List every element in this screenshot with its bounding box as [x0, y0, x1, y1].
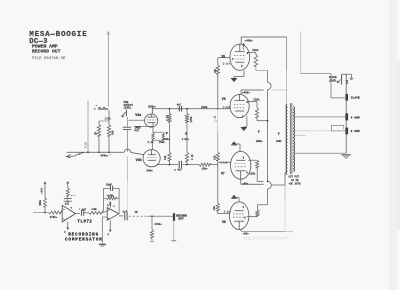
- title POWER AMP: [32, 44, 58, 50]
- V7 grid wire: [218, 161, 231, 163]
- label V8: [222, 220, 226, 224]
- label V7 pin9: [246, 171, 248, 174]
- label V7 pin3: [243, 156, 245, 159]
- V6 screen: [247, 97, 267, 120]
- wire pot line down: [126, 117, 128, 211]
- svg-text:4u7: 4u7: [177, 169, 182, 172]
- wire PI input: [67, 149, 144, 155]
- V7 cathode: [234, 144, 240, 152]
- label V8 pins: [224, 211, 232, 214]
- svg-text:COMPENSATOR: COMPENSATOR: [65, 238, 103, 243]
- V8 cathode: [234, 198, 239, 203]
- label V5 pins: [223, 63, 231, 66]
- wire screen rail: [268, 71, 272, 205]
- svg-text:+): +): [214, 120, 217, 123]
- wire slave feed: [301, 74, 345, 98]
- label 220k top: [201, 105, 208, 109]
- title RECORD OUT: [32, 49, 61, 55]
- ground op2 plus: [99, 217, 107, 246]
- svg-text:16k: 16k: [214, 68, 217, 73]
- pot PRE OUTPUT LEVEL: [122, 101, 134, 117]
- wire tail bottom: [152, 140, 163, 149]
- svg-text:1.8k+: 1.8k+: [182, 138, 190, 141]
- svg-text:4.7k: 4.7k: [85, 141, 88, 148]
- label 470k input: [100, 154, 108, 158]
- svg-text:1·1+3: 1·1+3: [223, 106, 231, 109]
- tube V4b: [143, 150, 160, 167]
- label 150: [110, 154, 112, 157]
- ground V7: [231, 141, 237, 145]
- wire input from preamp: [107, 32, 110, 107]
- svg-text:33pF: 33pF: [106, 184, 113, 187]
- supply -16v op1: [64, 222, 69, 234]
- V4a cathode lead: [134, 123, 153, 127]
- svg-text:V4a: V4a: [135, 114, 141, 118]
- svg-text:220k: 220k: [249, 173, 256, 176]
- label V8 pin9: [244, 217, 246, 220]
- label SLAVE LEVEL: [329, 76, 337, 82]
- V4b out: [157, 164, 163, 166]
- labels string B: [182, 116, 194, 160]
- label pins V6 grid: [223, 106, 231, 109]
- transformer top lead: [286, 103, 288, 105]
- svg-text:+490v: +490v: [245, 39, 253, 42]
- label V5 pin9: [247, 52, 249, 55]
- jack 4 OHM: [345, 113, 359, 120]
- svg-text:+490v: +490v: [242, 92, 250, 95]
- label +490v top: [243, 39, 254, 50]
- svg-text:1/2: 1/2: [107, 204, 112, 207]
- label V4a: [135, 114, 141, 118]
- label V7 pins: [220, 162, 228, 165]
- jack 8 OHM: [345, 128, 359, 135]
- V5 plate lead: [240, 37, 242, 44]
- svg-text:C+7: C+7: [123, 211, 128, 214]
- svg-text:25k: 25k: [346, 79, 349, 84]
- junction rail dots: [169, 108, 188, 166]
- wire plate top rail: [241, 36, 287, 38]
- labels string A: [163, 114, 171, 160]
- svg-text:TL072: TL072: [77, 220, 92, 225]
- V8 grid wire: [218, 213, 230, 215]
- label V6 pin9: [246, 101, 248, 104]
- label V4b: [136, 158, 142, 163]
- svg-text:250k+: 250k+: [148, 104, 156, 108]
- svg-text:100: 100: [164, 155, 167, 160]
- capacitor coupling top: [177, 103, 182, 111]
- V5 screen wire: [248, 52, 256, 54]
- tube V4a: [145, 114, 158, 127]
- pot slave level: [337, 75, 341, 85]
- V7 screen: [248, 160, 263, 181]
- V4a plate lead: [151, 108, 153, 115]
- svg-text:240v: 240v: [146, 170, 153, 173]
- label V5 pin2: [232, 58, 234, 61]
- svg-text:4u7: 4u7: [177, 103, 182, 106]
- svg-text:100k+: 100k+: [256, 140, 264, 143]
- input arrow: [66, 153, 84, 158]
- V5 cathode: [234, 70, 244, 76]
- label +490v V6: [242, 92, 250, 95]
- svg-text:V6: V6: [222, 97, 226, 101]
- svg-text:10k: 10k: [111, 130, 115, 135]
- label V7: [221, 172, 225, 176]
- svg-text:16k: 16k: [214, 155, 217, 160]
- capacitor cathode: [123, 127, 131, 129]
- jack RECORD OUT: [171, 213, 187, 241]
- svg-text:V5: V5: [221, 55, 225, 59]
- svg-text:1·1+3: 1·1+3: [224, 211, 232, 214]
- op1 to op2 network: [76, 208, 108, 216]
- label 240v: [146, 170, 153, 173]
- svg-text:+50+: +50+: [243, 232, 250, 235]
- ground V8: [231, 195, 237, 199]
- label RECORDING: [68, 232, 99, 237]
- labels 16k: [213, 68, 217, 210]
- resistor R2 10k: [107, 110, 114, 152]
- ground V6: [240, 126, 247, 131]
- V6 plate wire: [241, 90, 287, 95]
- tap 4 ohm: [295, 116, 345, 118]
- label 250k rail: [148, 104, 156, 108]
- svg-text:LEVEL: LEVEL: [124, 107, 132, 110]
- transformer primary: [285, 104, 288, 174]
- svg-text:FILE 0037AB.SE: FILE 0037AB.SE: [32, 57, 66, 61]
- svg-text:+16v: +16v: [41, 187, 44, 194]
- svg-text:100k+: 100k+: [163, 138, 171, 141]
- svg-text:1M: 1M: [134, 211, 138, 214]
- tap ground return: [295, 152, 346, 154]
- capacitor 4u7: [174, 161, 182, 172]
- resistor V5 screen: [254, 53, 257, 67]
- input resistor 470k: [33, 211, 62, 219]
- string A 4.7k: [168, 109, 171, 165]
- tube V6: [230, 94, 249, 117]
- svg-text:*.047: *.047: [79, 209, 87, 212]
- label V6 pin3: [242, 115, 244, 118]
- bias 1M +16v: [39, 182, 47, 213]
- node input junction: [94, 104, 109, 109]
- labels transformer wires: [256, 131, 282, 143]
- string B 220k: [185, 109, 188, 165]
- ground speaker: [342, 155, 351, 159]
- svg-text:POT: POT: [135, 129, 140, 132]
- transformer bottom lead: [284, 173, 286, 232]
- label 250k: [105, 117, 112, 121]
- scan streak right: [389, 0, 397, 290]
- label V5: [221, 55, 225, 59]
- wire divider top: [99, 120, 109, 122]
- label V8 pin3: [243, 206, 245, 209]
- transformer core: [290, 103, 292, 174]
- svg-text:10k+: 10k+: [202, 167, 209, 171]
- V8 screen: [247, 205, 268, 217]
- scan streak right2: [397, 60, 400, 230]
- svg-text:V4b: V4b: [136, 158, 142, 163]
- label TL072: [77, 220, 92, 225]
- ground V5: [231, 77, 238, 83]
- svg-text:220k: 220k: [190, 116, 193, 123]
- svg-text:1M: 1M: [95, 131, 98, 135]
- V7 plate: [241, 179, 285, 185]
- wire corner down: [286, 37, 288, 104]
- svg-text:+10k: +10k: [91, 208, 97, 211]
- svg-text:LEVEL: LEVEL: [329, 79, 337, 82]
- screen rail dots: [267, 120, 269, 182]
- svg-text:100k: 100k: [276, 140, 282, 143]
- svg-text:4 OHM: 4 OHM: [351, 117, 360, 120]
- svg-text:250k: 250k: [105, 117, 112, 121]
- svg-text:SLAVE: SLAVE: [351, 96, 360, 99]
- label 25k: [346, 79, 349, 84]
- label V5 pin3: [241, 65, 243, 68]
- label 220k V5: [252, 48, 259, 52]
- svg-text:V8: V8: [222, 220, 226, 224]
- svg-text:470k+: 470k+: [50, 215, 58, 219]
- title MESA-BOOGIE: [29, 31, 87, 39]
- wire slave top: [342, 74, 354, 79]
- supply +16v op2: [109, 202, 111, 208]
- title DC-3: [29, 38, 47, 46]
- resistor 470k shunt: [150, 215, 162, 241]
- note line: [244, 238, 289, 240]
- jack SLAVE: [345, 94, 360, 101]
- svg-text:POWER AMP: POWER AMP: [32, 44, 58, 50]
- tap bracket: [331, 125, 343, 130]
- label pin2 V6: [214, 116, 217, 123]
- wire faint vertical: [300, 32, 302, 74]
- resistor R1 1M: [95, 121, 101, 152]
- svg-text:8 OHM: 8 OHM: [351, 130, 360, 133]
- V6 cathode: [246, 116, 248, 126]
- svg-text:220k: 220k: [201, 105, 208, 109]
- feedback loop: [104, 184, 120, 214]
- supply +16v op1: [64, 182, 76, 206]
- string grid resistors 16k: [216, 58, 219, 214]
- label OUTPUT transformer: [289, 176, 302, 186]
- title FILE: [32, 57, 66, 61]
- resistor tail 2.2k: [148, 126, 155, 144]
- svg-text:100k: 100k: [159, 141, 166, 144]
- svg-text:1·1+3: 1·1+3: [223, 63, 231, 66]
- opamp U1a: [62, 202, 75, 222]
- supply -16v op2: [108, 220, 112, 236]
- svg-text:2.2k: 2.2k: [191, 154, 194, 160]
- svg-text:16k: 16k: [213, 205, 216, 210]
- label COMPENSATOR: [65, 238, 103, 243]
- wire tail top: [153, 131, 163, 133]
- tube V5: [230, 44, 250, 70]
- wire pot to V4a: [129, 119, 145, 121]
- svg-text:470k+: 470k+: [100, 154, 108, 158]
- wire slave main vertical: [345, 74, 347, 153]
- svg-text:+40v: +40v: [242, 182, 249, 185]
- record out wire: [119, 211, 173, 221]
- svg-text:4·7: 4·7: [71, 194, 76, 197]
- resistor tail 100k: [159, 132, 166, 144]
- wire plate rail: [152, 108, 230, 110]
- svg-text:1/2: 1/2: [65, 202, 70, 205]
- svg-text:V7: V7: [221, 172, 225, 176]
- svg-text:+DC 3678: +DC 3678: [289, 183, 302, 186]
- tube V7: [231, 151, 251, 179]
- opamp U1b: [107, 204, 119, 220]
- svg-text:1MEG: 1MEG: [39, 199, 42, 205]
- svg-text:+100k: +100k: [107, 195, 115, 198]
- label +50v: [243, 232, 250, 235]
- tap common short: [295, 134, 306, 136]
- transformer secondary: [293, 107, 296, 172]
- label 1 MEG POT: [135, 126, 142, 132]
- label +40v: [242, 182, 249, 185]
- svg-text:4.7k: 4.7k: [166, 114, 169, 121]
- junctions: [87, 151, 110, 153]
- svg-text:220k: 220k: [252, 48, 259, 52]
- label V6: [222, 97, 226, 101]
- wire left rail 4.7k: [85, 101, 89, 152]
- svg-text:2.2k: 2.2k: [148, 141, 155, 144]
- wire lower run: [163, 164, 218, 166]
- tap 8 ohm: [295, 130, 345, 132]
- V8 plate: [241, 229, 293, 231]
- tube V8: [230, 202, 249, 230]
- wire V5 screen to rail: [256, 66, 268, 71]
- svg-text:470k+: 470k+: [154, 223, 162, 226]
- wire V5 grid: [218, 57, 231, 59]
- svg-text:OUT: OUT: [178, 218, 184, 221]
- svg-text:RECORD OUT: RECORD OUT: [32, 49, 61, 55]
- svg-text:220k: 220k: [253, 97, 260, 101]
- resistor 10k series: [199, 163, 211, 171]
